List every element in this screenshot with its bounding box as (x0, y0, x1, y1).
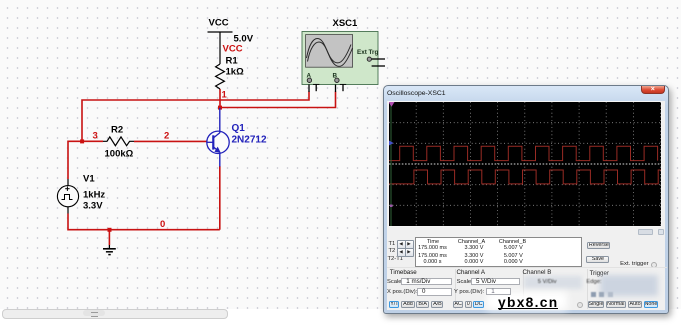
svg-text:VCC: VCC (209, 18, 229, 29)
svg-text:3.3V: 3.3V (83, 200, 103, 211)
svg-text:1kΩ: 1kΩ (226, 67, 245, 78)
svg-text:Ext Trg: Ext Trg (357, 49, 378, 56)
svg-text:2: 2 (164, 130, 169, 141)
svg-text:VCC: VCC (223, 44, 243, 55)
svg-text:XSC1: XSC1 (333, 18, 359, 29)
svg-text:0: 0 (160, 219, 165, 230)
svg-text:R2: R2 (111, 124, 123, 135)
svg-text:3: 3 (93, 130, 98, 141)
svg-text:1: 1 (222, 90, 228, 101)
svg-text:A: A (307, 73, 312, 80)
svg-text:100kΩ: 100kΩ (105, 149, 134, 160)
svg-text:R1: R1 (226, 56, 239, 67)
svg-text:V1: V1 (83, 174, 95, 185)
svg-text:2N2712: 2N2712 (232, 135, 267, 146)
svg-text:B: B (333, 73, 338, 80)
svg-text:Q1: Q1 (232, 123, 246, 134)
svg-text:1kHz: 1kHz (83, 189, 105, 200)
